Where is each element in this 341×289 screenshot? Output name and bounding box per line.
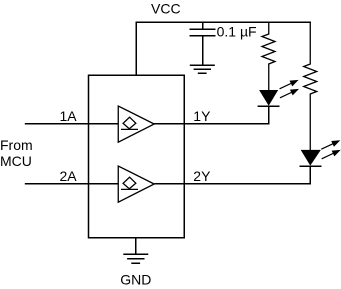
svg-text:GND: GND [120, 271, 151, 287]
svg-text:0.1 µF: 0.1 µF [217, 24, 257, 40]
wire input 2A net [25, 183, 118, 185]
wire 1Y net [154, 123, 269, 125]
svg-text:From: From [0, 137, 33, 153]
buffer U1A (open-drain) [118, 106, 154, 142]
LED D1 [258, 91, 280, 125]
svg-text:1Y: 1Y [193, 108, 211, 124]
wire VCC rail [136, 21, 312, 23]
LED D2 arrow 1 [320, 137, 341, 152]
LED D1 arrow 1 [278, 77, 300, 92]
LED D2 arrow 2 [320, 147, 341, 162]
resistor R1 [262, 22, 275, 91]
wire 2Y net [155, 183, 312, 185]
wire GND stem [135, 238, 137, 254]
LED D2 [300, 150, 322, 184]
LED D1 arrow 2 [279, 86, 301, 101]
ground (capacitor) [190, 65, 215, 73]
IC U1 box [89, 75, 185, 238]
ground (GND symbol) [123, 254, 148, 263]
resistor R2 [304, 22, 317, 151]
svg-text:2A: 2A [60, 168, 78, 184]
capacitor C1 [190, 22, 216, 66]
buffer U1B (open-drain) [118, 166, 154, 202]
wire input 1A net [25, 123, 118, 125]
svg-text:1A: 1A [60, 108, 78, 124]
wire VCC to U1 top [135, 22, 137, 76]
svg-text:2Y: 2Y [193, 168, 211, 184]
svg-text:VCC: VCC [151, 1, 181, 17]
svg-text:MCU: MCU [0, 153, 32, 169]
